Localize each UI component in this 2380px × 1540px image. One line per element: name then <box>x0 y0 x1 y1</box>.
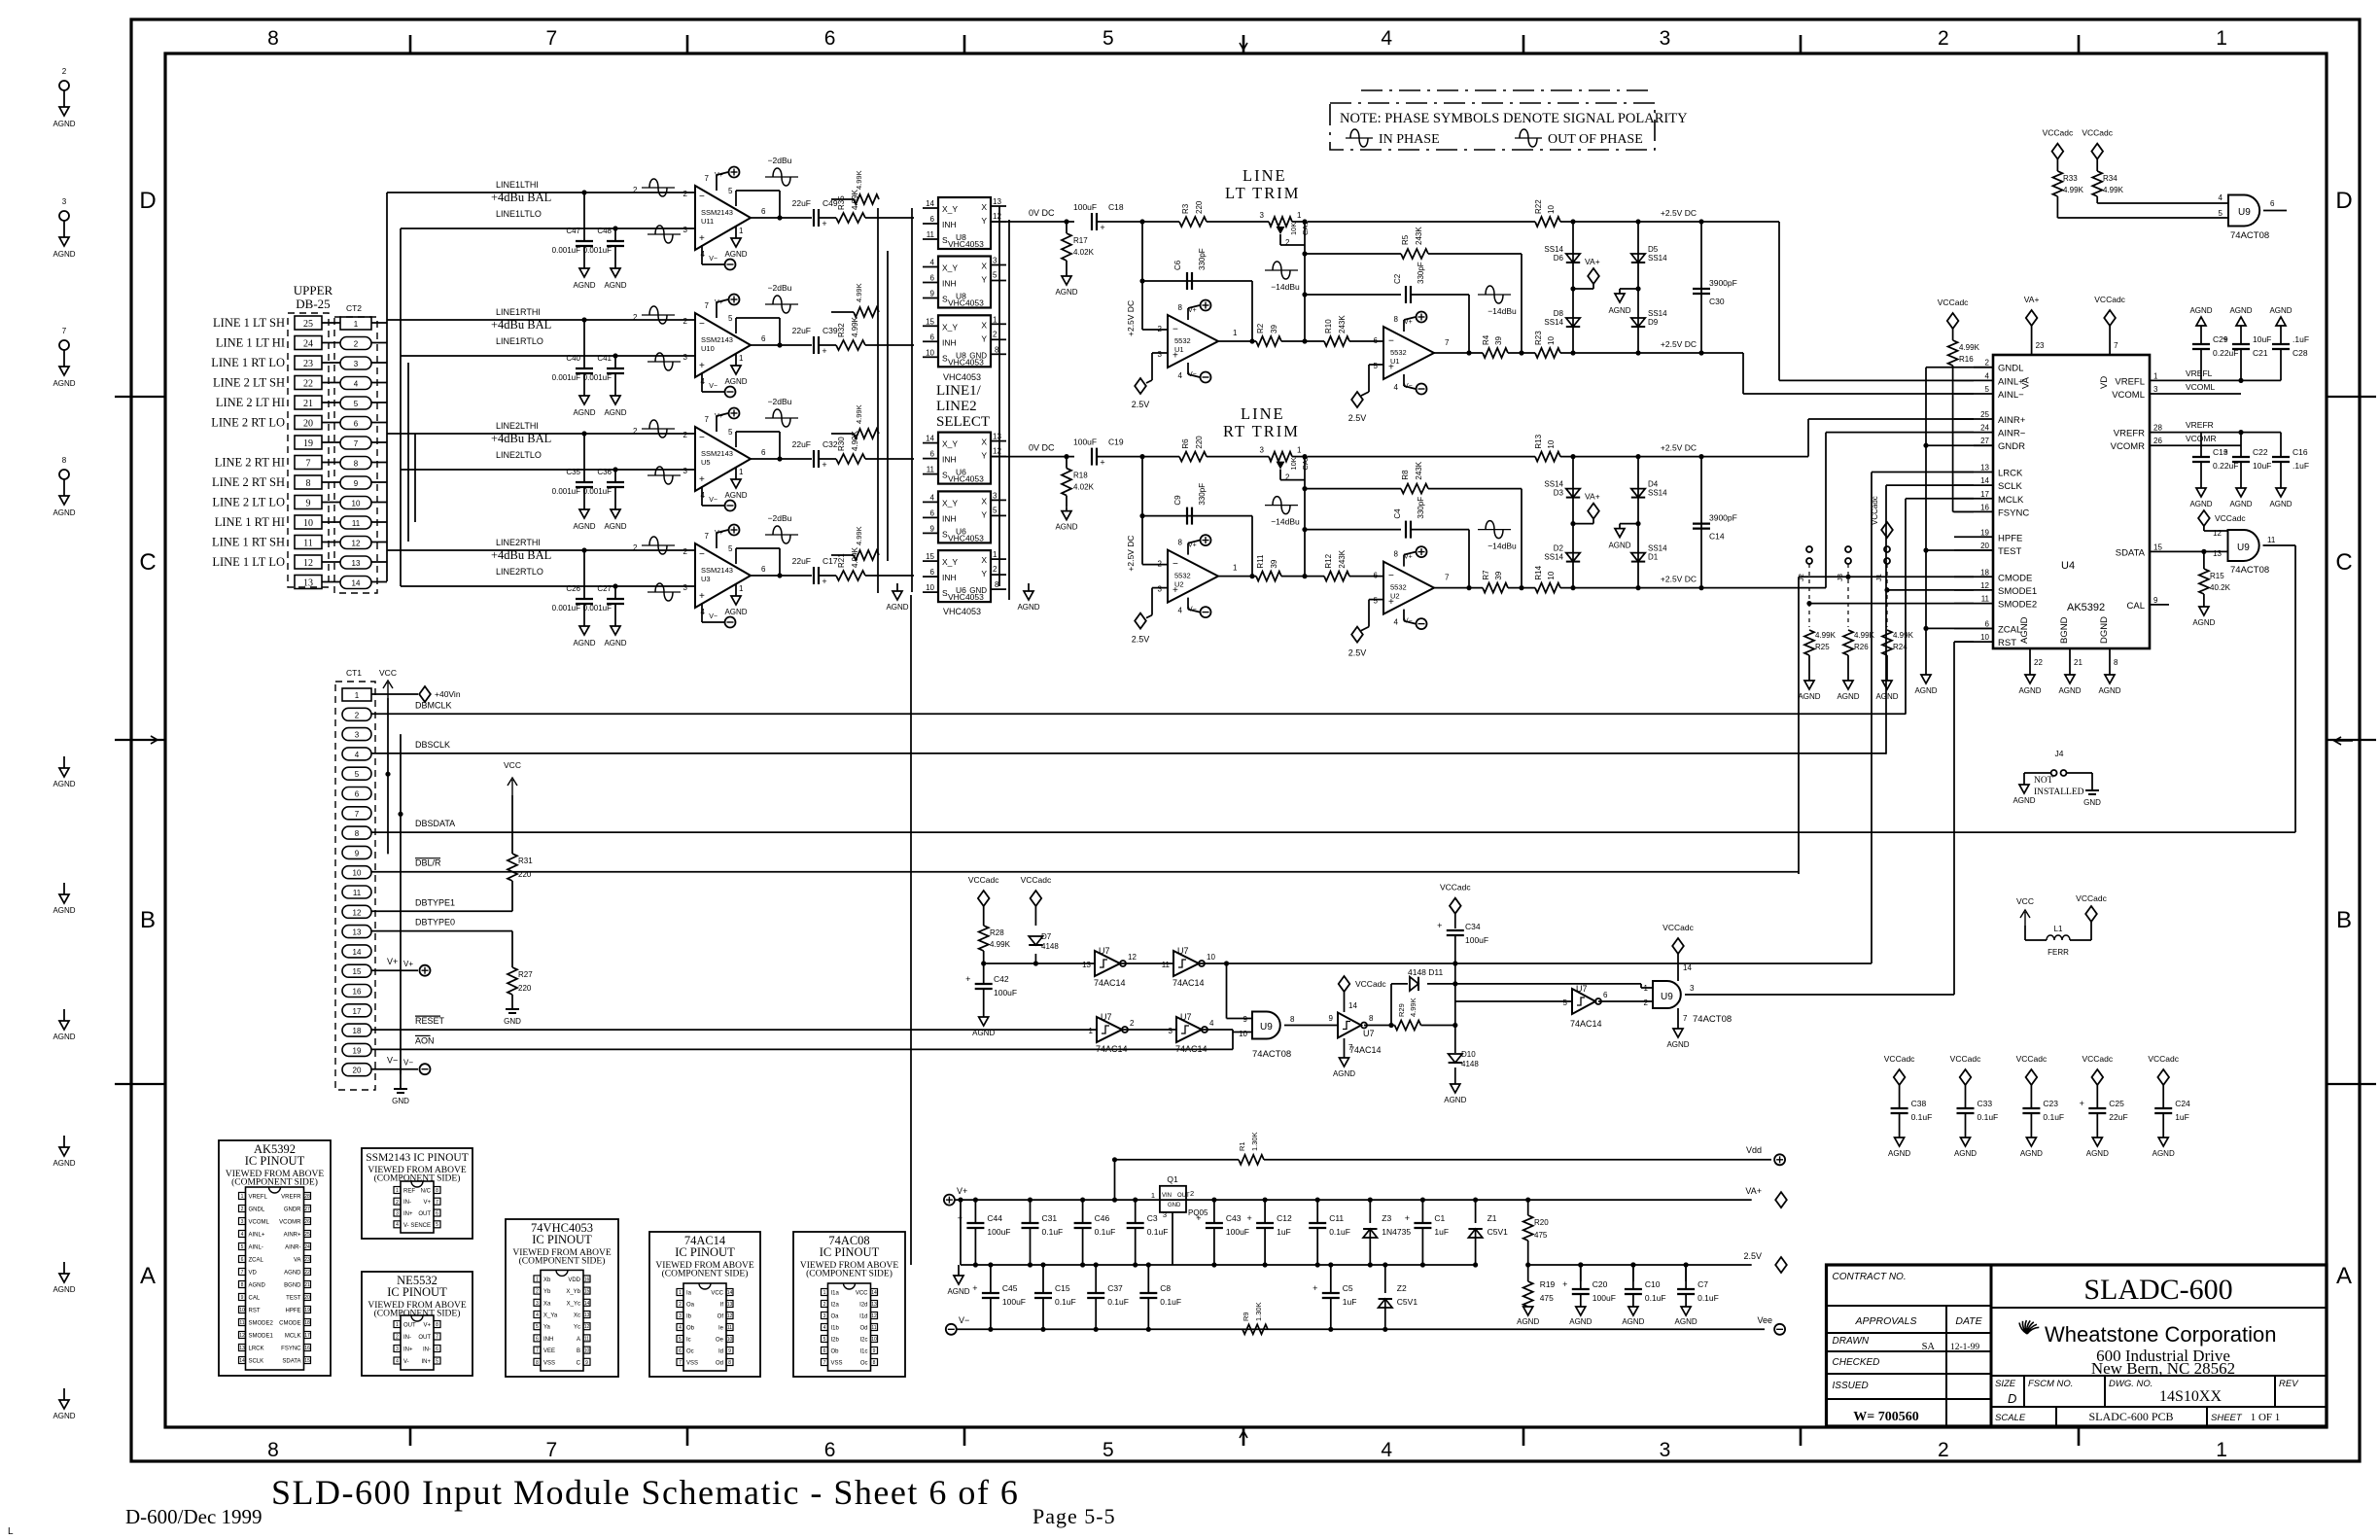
svg-text:C2: C2 <box>1393 273 1402 284</box>
svg-text:C4: C4 <box>1393 508 1402 519</box>
svg-text:Xa: Xa <box>543 1301 551 1307</box>
svg-text:2: 2 <box>1130 1019 1135 1028</box>
svg-text:LINE1RTLO: LINE1RTLO <box>496 336 543 346</box>
svg-text:Ic: Ic <box>686 1338 691 1344</box>
svg-text:Xc: Xc <box>574 1313 580 1319</box>
svg-text:7: 7 <box>705 415 710 424</box>
svg-text:1: 1 <box>739 468 744 476</box>
svg-text:23: 23 <box>304 1257 310 1263</box>
svg-text:C42: C42 <box>994 974 1009 984</box>
svg-text:8: 8 <box>1290 1015 1295 1024</box>
svg-text:LINE2LTHI: LINE2LTHI <box>496 421 539 431</box>
svg-text:100uF: 100uF <box>1073 437 1097 447</box>
svg-text:LINE: LINE <box>1242 166 1287 185</box>
svg-text:DBMCLK: DBMCLK <box>415 700 452 710</box>
svg-text:NOT: NOT <box>2034 776 2053 786</box>
svg-text:FERR: FERR <box>2047 948 2069 957</box>
svg-text:24: 24 <box>303 339 313 350</box>
svg-text:V−: V− <box>709 383 717 390</box>
svg-text:AINL−: AINL− <box>1998 390 2024 401</box>
svg-text:VREFL: VREFL <box>2115 376 2145 387</box>
svg-text:(COMPONENT SIDE): (COMPONENT SIDE) <box>806 1269 892 1279</box>
svg-text:VIN: VIN <box>1162 1193 1172 1199</box>
svg-text:VCOMR: VCOMR <box>279 1220 301 1226</box>
svg-text:0.1uF: 0.1uF <box>1977 1112 1999 1122</box>
svg-text:+: + <box>965 974 970 984</box>
svg-text:6: 6 <box>761 334 766 343</box>
svg-text:V+: V+ <box>715 530 723 537</box>
svg-text:VCC: VCC <box>711 1291 723 1297</box>
svg-text:R15: R15 <box>2210 572 2224 580</box>
svg-text:7: 7 <box>436 1200 438 1206</box>
svg-text:C10: C10 <box>1645 1279 1661 1289</box>
svg-text:10: 10 <box>303 518 313 529</box>
svg-text:C14: C14 <box>1709 532 1725 542</box>
svg-text:4.99K: 4.99K <box>851 316 859 337</box>
svg-text:2: 2 <box>1938 1439 1949 1461</box>
svg-text:10K: 10K <box>1289 457 1298 470</box>
svg-text:C48: C48 <box>597 227 612 235</box>
svg-text:1: 1 <box>1089 1027 1094 1035</box>
svg-text:U2: U2 <box>1174 580 1184 589</box>
svg-text:3900pF: 3900pF <box>1709 278 1737 288</box>
svg-text:10: 10 <box>239 1308 245 1313</box>
svg-text:GNDR: GNDR <box>284 1207 301 1213</box>
svg-text:VCCadc: VCCadc <box>2148 1054 2179 1064</box>
svg-text:CMODE: CMODE <box>279 1321 300 1327</box>
svg-text:9: 9 <box>585 1360 588 1366</box>
svg-text:C21: C21 <box>2253 348 2268 358</box>
svg-text:If: If <box>720 1303 724 1309</box>
svg-text:AINL+: AINL+ <box>249 1233 265 1239</box>
svg-text:7: 7 <box>545 1439 557 1461</box>
svg-text:1 OF 1: 1 OF 1 <box>2251 1412 2281 1423</box>
svg-text:OUT: OUT <box>1177 1193 1190 1199</box>
svg-text:SDATA: SDATA <box>2116 547 2146 558</box>
svg-text:VHC4053: VHC4053 <box>948 592 984 602</box>
svg-text:AINR+: AINR+ <box>1998 415 2026 426</box>
svg-text:C30: C30 <box>1709 297 1725 306</box>
svg-text:2: 2 <box>1285 238 1290 247</box>
svg-text:+2.5V DC: +2.5V DC <box>1661 339 1697 349</box>
svg-text:+2.5V DC: +2.5V DC <box>1126 536 1136 572</box>
svg-text:11: 11 <box>353 889 362 897</box>
svg-text:0.1uF: 0.1uF <box>2043 1112 2064 1122</box>
svg-text:INH: INH <box>942 455 957 465</box>
svg-text:VCOML: VCOML <box>2186 382 2216 392</box>
svg-text:11: 11 <box>727 1325 732 1331</box>
svg-text:X_Yb: X_Yb <box>566 1289 580 1295</box>
svg-text:1: 1 <box>396 1322 399 1328</box>
svg-text:DWG. NO.: DWG. NO. <box>2109 1379 2152 1389</box>
svg-text:LINE: LINE <box>1241 404 1285 423</box>
svg-text:8: 8 <box>241 1282 244 1288</box>
svg-text:39: 39 <box>1270 325 1278 333</box>
svg-text:13: 13 <box>1980 464 1989 472</box>
svg-text:AGND: AGND <box>2020 1149 2043 1158</box>
svg-text:VCOMR: VCOMR <box>2111 441 2146 452</box>
svg-text:Ia: Ia <box>686 1291 692 1297</box>
svg-text:+: + <box>822 346 826 356</box>
svg-text:24: 24 <box>1980 424 1989 433</box>
svg-text:330pF: 330pF <box>1417 497 1425 519</box>
svg-text:5: 5 <box>1563 998 1568 1007</box>
svg-text:C5V1: C5V1 <box>1487 1227 1509 1237</box>
svg-text:V+: V+ <box>957 1186 967 1196</box>
svg-text:+: + <box>2080 1099 2084 1108</box>
svg-text:SELECT: SELECT <box>936 414 990 430</box>
svg-text:9: 9 <box>2153 596 2158 605</box>
svg-text:6: 6 <box>930 215 935 224</box>
svg-text:HPFE: HPFE <box>285 1309 300 1314</box>
svg-text:2: 2 <box>823 1302 826 1308</box>
svg-text:C38: C38 <box>1911 1099 1927 1108</box>
svg-text:AGND: AGND <box>1954 1149 1977 1158</box>
svg-text:13: 13 <box>993 197 1001 206</box>
svg-text:IN-: IN- <box>423 1347 431 1353</box>
svg-text:AGND: AGND <box>2019 616 2030 644</box>
svg-text:3: 3 <box>683 226 688 234</box>
svg-text:VREFR: VREFR <box>281 1195 301 1201</box>
svg-text:22uF: 22uF <box>792 439 811 449</box>
svg-text:74ACT08: 74ACT08 <box>1693 1014 1732 1025</box>
svg-text:CT2: CT2 <box>346 303 362 313</box>
svg-text:SCALE: SCALE <box>1995 1413 2026 1423</box>
svg-text:C8: C8 <box>1160 1283 1171 1293</box>
svg-text:100uF: 100uF <box>1592 1293 1616 1303</box>
svg-text:3: 3 <box>993 257 997 265</box>
svg-text:VD: VD <box>249 1271 258 1277</box>
svg-text:AGND: AGND <box>2058 686 2081 695</box>
svg-text:0V DC: 0V DC <box>1029 443 1055 453</box>
svg-text:A: A <box>577 1337 580 1343</box>
svg-text:D: D <box>2335 188 2352 214</box>
svg-text:R29: R29 <box>1397 1003 1406 1017</box>
svg-text:9: 9 <box>930 524 935 533</box>
svg-text:10: 10 <box>1239 1030 1247 1038</box>
svg-text:AGND: AGND <box>2152 1149 2175 1158</box>
svg-text:10: 10 <box>1547 439 1556 448</box>
svg-text:8: 8 <box>267 27 279 50</box>
svg-text:10: 10 <box>1547 571 1556 579</box>
svg-text:Z3: Z3 <box>1382 1213 1391 1223</box>
svg-text:SMODE1: SMODE1 <box>249 1334 274 1340</box>
svg-text:VCC: VCC <box>379 668 397 678</box>
svg-text:C11: C11 <box>1329 1213 1344 1223</box>
svg-text:SLD-600 Input Module Schematic: SLD-600 Input Module Schematic - Sheet 6… <box>271 1473 1019 1512</box>
svg-text:+4dBu BAL: +4dBu BAL <box>491 318 551 332</box>
svg-text:X: X <box>981 437 987 447</box>
svg-text:−: − <box>1388 571 1394 581</box>
svg-text:VCC: VCC <box>2016 896 2034 906</box>
svg-text:1uF: 1uF <box>1277 1227 1291 1237</box>
svg-text:2: 2 <box>536 1289 539 1295</box>
svg-text:−: − <box>1172 325 1178 335</box>
svg-text:R16: R16 <box>1959 355 1974 364</box>
svg-text:11: 11 <box>239 1320 244 1326</box>
svg-text:4148: 4148 <box>1461 1060 1479 1068</box>
svg-text:AGND: AGND <box>2018 686 2041 695</box>
svg-text:V+: V+ <box>1404 554 1413 561</box>
svg-text:R14: R14 <box>1534 565 1543 579</box>
svg-text:R13: R13 <box>1534 434 1543 448</box>
svg-text:U1: U1 <box>1174 345 1184 354</box>
svg-text:SS14: SS14 <box>1544 480 1563 489</box>
svg-text:C45: C45 <box>1002 1283 1018 1293</box>
svg-text:SENCE: SENCE <box>410 1223 431 1229</box>
svg-text:.1uF: .1uF <box>2292 461 2309 471</box>
svg-text:RST: RST <box>249 1309 261 1314</box>
svg-text:2.5V: 2.5V <box>1132 635 1150 645</box>
svg-text:2: 2 <box>241 1207 244 1212</box>
svg-text:3: 3 <box>536 1301 539 1307</box>
svg-text:5532: 5532 <box>1390 583 1407 592</box>
svg-text:AGND: AGND <box>604 639 626 647</box>
svg-text:Y: Y <box>981 509 987 519</box>
svg-text:AGND: AGND <box>724 377 747 386</box>
svg-text:22: 22 <box>304 1270 310 1276</box>
svg-text:11: 11 <box>1981 595 1990 604</box>
svg-text:1: 1 <box>536 1277 539 1282</box>
svg-text:6: 6 <box>930 332 935 341</box>
svg-text:8: 8 <box>873 1360 876 1366</box>
svg-text:7: 7 <box>679 1360 682 1366</box>
svg-text:74AC14: 74AC14 <box>1349 1045 1382 1055</box>
svg-text:3: 3 <box>1660 1439 1671 1461</box>
svg-text:I2c: I2c <box>859 1338 867 1344</box>
svg-text:Ob: Ob <box>831 1349 840 1355</box>
svg-text:VCCadc: VCCadc <box>1355 979 1386 989</box>
svg-text:−: − <box>1172 559 1178 570</box>
svg-text:C31: C31 <box>1042 1213 1058 1223</box>
svg-text:AGND: AGND <box>573 639 595 647</box>
svg-text:13: 13 <box>239 1346 245 1351</box>
svg-text:RESET: RESET <box>415 1016 445 1026</box>
svg-text:8: 8 <box>62 456 67 465</box>
svg-text:DBTYPE1: DBTYPE1 <box>415 897 455 907</box>
svg-text:3: 3 <box>354 360 359 368</box>
svg-text:N/C: N/C <box>421 1189 432 1195</box>
svg-text:C44: C44 <box>987 1213 1002 1223</box>
svg-text:8: 8 <box>1394 315 1399 324</box>
svg-text:SCLK: SCLK <box>249 1359 264 1365</box>
svg-text:17: 17 <box>1980 490 1989 499</box>
svg-text:U7: U7 <box>1099 946 1110 956</box>
svg-text:18: 18 <box>1980 568 1989 577</box>
svg-text:X: X <box>981 262 987 271</box>
svg-text:12: 12 <box>993 447 1001 456</box>
svg-text:14: 14 <box>926 435 934 443</box>
svg-text:100uF: 100uF <box>987 1227 1010 1237</box>
svg-text:8: 8 <box>728 1360 731 1366</box>
svg-text:+: + <box>1562 1279 1567 1289</box>
svg-text:2: 2 <box>633 186 638 194</box>
svg-text:2: 2 <box>354 340 359 349</box>
svg-text:C: C <box>139 549 156 576</box>
svg-text:+: + <box>1246 1213 1251 1223</box>
svg-text:74AC14: 74AC14 <box>1094 978 1126 988</box>
svg-text:+: + <box>972 1283 977 1293</box>
svg-text:3: 3 <box>1169 1027 1173 1035</box>
svg-text:12: 12 <box>993 212 1001 221</box>
svg-text:BGND: BGND <box>2059 616 2070 644</box>
svg-text:1: 1 <box>679 1290 682 1296</box>
svg-text:10uF: 10uF <box>2253 461 2271 471</box>
svg-text:AGND: AGND <box>52 120 75 128</box>
svg-text:A: A <box>2336 1263 2352 1289</box>
svg-text:VCCadc: VCCadc <box>2094 295 2125 304</box>
svg-text:22: 22 <box>2034 658 2043 667</box>
svg-text:U11: U11 <box>701 217 714 226</box>
svg-text:V+: V+ <box>1404 319 1413 326</box>
svg-text:5: 5 <box>993 506 997 514</box>
svg-text:4: 4 <box>1209 1019 1214 1028</box>
svg-text:U9: U9 <box>2237 542 2250 553</box>
svg-text:2: 2 <box>1285 473 1290 482</box>
svg-text:3: 3 <box>823 1313 826 1319</box>
svg-text:VHC4053: VHC4053 <box>943 372 981 382</box>
svg-text:AGND: AGND <box>1444 1096 1466 1104</box>
svg-text:+: + <box>2222 334 2227 344</box>
svg-text:D10: D10 <box>1461 1050 1476 1059</box>
svg-text:AGND: AGND <box>2098 686 2120 695</box>
svg-text:R18: R18 <box>1073 472 1088 480</box>
svg-text:SA: SA <box>1922 1342 1936 1352</box>
svg-text:5: 5 <box>728 314 733 323</box>
svg-text:VCOML: VCOML <box>2112 390 2145 401</box>
svg-text:R25: R25 <box>1815 643 1830 651</box>
svg-text:VA: VA <box>2021 376 2032 389</box>
svg-text:1: 1 <box>241 1194 244 1200</box>
svg-text:100uF: 100uF <box>1465 935 1488 945</box>
svg-text:19: 19 <box>303 438 313 449</box>
svg-text:+: + <box>1405 1213 1410 1223</box>
svg-text:C15: C15 <box>1055 1283 1070 1293</box>
svg-text:100uF: 100uF <box>1002 1297 1026 1307</box>
svg-text:V−: V− <box>1404 383 1413 390</box>
svg-text:R7: R7 <box>1482 570 1490 580</box>
svg-text:2.5V: 2.5V <box>1132 400 1150 409</box>
svg-text:LINE2RTHI: LINE2RTHI <box>496 538 541 547</box>
svg-text:LINE1LTLO: LINE1LTLO <box>496 209 542 219</box>
svg-text:13: 13 <box>584 1312 590 1318</box>
svg-text:C7: C7 <box>1697 1279 1708 1289</box>
svg-text:V-: V- <box>403 1359 409 1365</box>
svg-text:5: 5 <box>355 770 360 779</box>
svg-text:10: 10 <box>352 500 361 508</box>
svg-text:R12: R12 <box>1324 553 1333 568</box>
svg-text:+2.5V DC: +2.5V DC <box>1661 443 1697 453</box>
svg-text:AGND: AGND <box>2086 1149 2109 1158</box>
svg-text:4: 4 <box>930 259 935 267</box>
svg-text:C47: C47 <box>566 227 580 235</box>
svg-text:R19: R19 <box>1540 1279 1556 1289</box>
svg-text:Page 5-5: Page 5-5 <box>1032 1504 1116 1528</box>
svg-text:1uF: 1uF <box>1343 1297 1357 1307</box>
svg-text:14S10XX: 14S10XX <box>2159 1388 2222 1405</box>
svg-text:U7: U7 <box>1363 1029 1375 1038</box>
svg-text:7: 7 <box>436 1335 438 1341</box>
svg-text:74AC14: 74AC14 <box>1175 1044 1207 1054</box>
svg-text:7: 7 <box>62 327 67 335</box>
svg-text:7: 7 <box>1683 1014 1688 1023</box>
svg-text:(COMPONENT SIDE): (COMPONENT SIDE) <box>662 1269 749 1279</box>
svg-text:C5: C5 <box>1343 1283 1353 1293</box>
svg-text:V+: V+ <box>1188 307 1197 314</box>
svg-text:4.99K: 4.99K <box>2103 186 2124 194</box>
svg-text:VCCadc: VCCadc <box>1021 875 1052 885</box>
svg-text:Of: Of <box>717 1314 724 1320</box>
svg-text:AGND: AGND <box>972 1029 995 1037</box>
svg-text:4.99K: 4.99K <box>1959 343 1980 352</box>
svg-text:I1b: I1b <box>831 1326 840 1332</box>
svg-text:243K: 243K <box>1338 549 1347 568</box>
svg-text:4148: 4148 <box>1041 942 1059 951</box>
svg-text:13: 13 <box>993 433 1001 441</box>
svg-text:CONTRACT NO.: CONTRACT NO. <box>1833 1272 1907 1282</box>
svg-text:C36: C36 <box>597 468 612 476</box>
svg-text:4: 4 <box>1985 371 1990 380</box>
svg-text:REF: REF <box>403 1189 415 1195</box>
svg-text:100uF: 100uF <box>994 988 1017 997</box>
svg-text:475: 475 <box>1540 1293 1554 1303</box>
svg-text:20: 20 <box>353 1067 362 1075</box>
svg-text:V+: V+ <box>715 413 723 420</box>
svg-text:I2d: I2d <box>859 1303 867 1309</box>
svg-text:LINE 2 RT SH: LINE 2 RT SH <box>212 475 285 489</box>
svg-text:C9: C9 <box>1173 495 1182 506</box>
svg-text:SS14: SS14 <box>1544 245 1563 254</box>
svg-text:4: 4 <box>2219 193 2223 202</box>
svg-text:AINR−: AINR− <box>1998 429 2026 439</box>
svg-text:VHC4053: VHC4053 <box>943 607 981 616</box>
svg-text:SS14: SS14 <box>1544 553 1563 562</box>
svg-text:DRAWN: DRAWN <box>1833 1336 1870 1347</box>
svg-text:9: 9 <box>930 290 935 298</box>
svg-text:IN+: IN+ <box>403 1211 413 1217</box>
svg-text:18: 18 <box>353 1027 362 1035</box>
svg-text:MCLK: MCLK <box>285 1334 301 1340</box>
svg-text:2: 2 <box>633 427 638 436</box>
svg-text:INH: INH <box>942 573 957 582</box>
svg-text:SS14: SS14 <box>1648 309 1667 318</box>
svg-text:6: 6 <box>1985 619 1990 628</box>
svg-text:C25: C25 <box>2109 1099 2124 1108</box>
svg-text:C: C <box>577 1360 581 1366</box>
svg-text:INH: INH <box>942 337 957 347</box>
svg-text:3: 3 <box>62 197 67 206</box>
svg-text:8: 8 <box>354 460 359 469</box>
svg-text:X_Y: X_Y <box>942 557 958 567</box>
svg-text:SS14: SS14 <box>1648 544 1667 553</box>
svg-text:4.99K: 4.99K <box>855 404 863 424</box>
svg-text:AGND: AGND <box>1517 1317 1539 1326</box>
svg-text:14: 14 <box>584 1301 590 1307</box>
svg-text:6: 6 <box>823 1348 826 1354</box>
svg-text:SSM2143: SSM2143 <box>701 208 733 217</box>
svg-text:R6: R6 <box>1181 438 1190 449</box>
svg-text:U9: U9 <box>2238 207 2251 218</box>
svg-text:New Bern, NC 28562: New Bern, NC 28562 <box>2091 1359 2235 1378</box>
svg-text:+: + <box>699 474 705 485</box>
svg-text:13: 13 <box>353 928 362 937</box>
svg-text:5: 5 <box>823 1337 826 1343</box>
svg-text:C26: C26 <box>566 584 580 593</box>
svg-text:1uF: 1uF <box>1434 1227 1449 1237</box>
svg-text:AGND: AGND <box>1017 603 1039 612</box>
svg-text:74AC14: 74AC14 <box>1172 978 1205 988</box>
svg-text:DBSDATA: DBSDATA <box>415 819 455 828</box>
